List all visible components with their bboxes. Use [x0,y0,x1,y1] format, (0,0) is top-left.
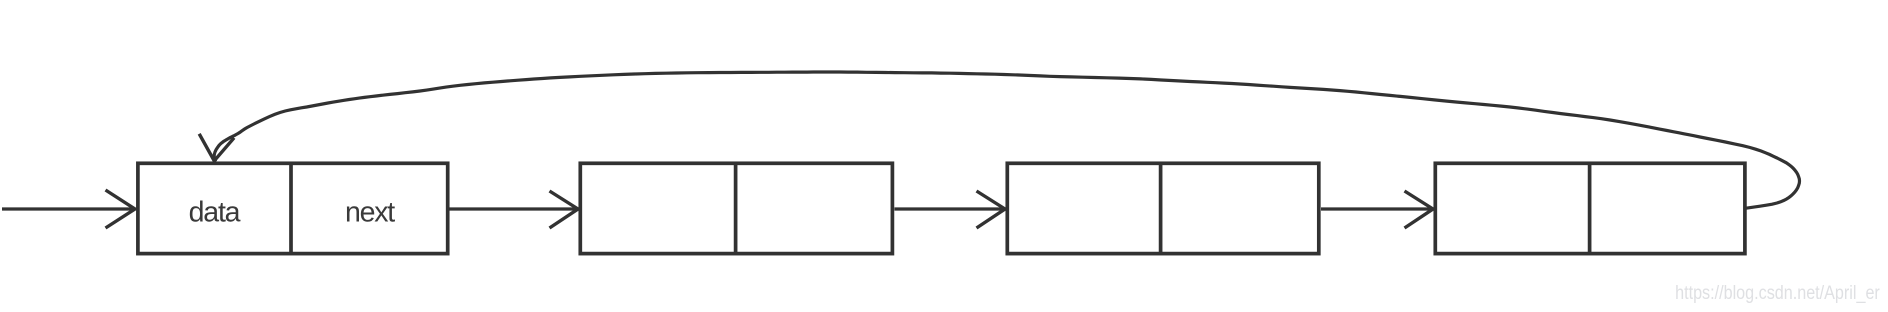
N2-N3 arrowhead [977,191,1006,228]
svg-text:data: data [189,197,241,229]
node N3 box [1007,163,1319,253]
entry pointer arrowhead [106,190,136,228]
node N4 divider [1588,163,1592,254]
N3-N4 arrowhead [1405,191,1434,228]
node N2 divider [734,163,738,254]
wire: N2 to N3 shaft [895,207,1004,210]
node N2 box [580,163,892,253]
wire: N1 to N2 shaft [449,207,577,210]
watermark [1675,284,1880,303]
svg-text:next: next [345,197,395,229]
wire: circular link curve from N4.next back to N1 [214,72,1799,208]
node N1 divider [289,163,293,254]
wire: N3 to N4 shaft [1321,207,1432,210]
node N3 divider [1159,163,1163,254]
node N4 box [1435,163,1745,253]
N1-N2 arrowhead [550,191,579,228]
circular link arrowhead [199,134,234,161]
node N1 box [138,163,448,253]
wire: entry pointer shaft [2,207,134,210]
